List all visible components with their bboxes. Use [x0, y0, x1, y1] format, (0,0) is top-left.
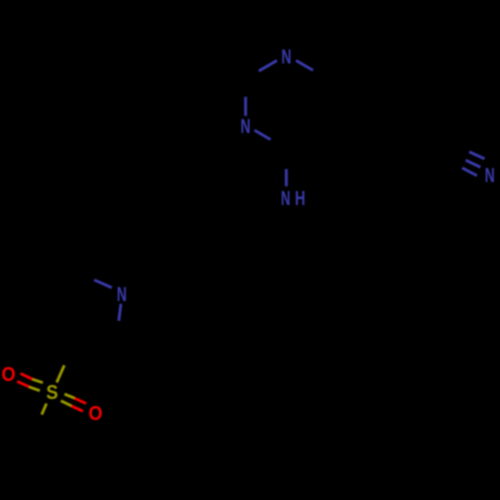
- nitrile triple bond line middle: [466, 160, 481, 167]
- bond N1-C8a (half near N1): [296, 61, 313, 71]
- bond N3-C4 (half near N3): [255, 130, 271, 139]
- svg-text:S: S: [46, 381, 58, 404]
- svg-text:N: N: [117, 283, 127, 306]
- S=O left double bond lower line olive half: [29, 387, 40, 391]
- bond pipN-C6 (half near N): [94, 280, 112, 288]
- S=O left double bond upper line olive half: [33, 379, 43, 382]
- S=O right double bond lower line red half: [71, 406, 83, 411]
- svg-text:N: N: [485, 164, 495, 187]
- nitrile triple bond line bottom: [462, 168, 477, 176]
- bond N1-C2 (half near N1): [259, 61, 277, 72]
- bond S-CH3 (half near S): [42, 404, 47, 415]
- S=O right double bond upper line olive half: [65, 394, 75, 398]
- S=O left double bond upper line red half: [21, 374, 33, 380]
- svg-text:N: N: [241, 115, 251, 138]
- svg-text:N: N: [281, 187, 291, 210]
- S=O right double bond upper line red half: [74, 398, 86, 403]
- bond C4-NH (half near NH): [285, 169, 288, 186]
- nitrile triple bond line top: [469, 152, 484, 159]
- bond pipN-C2 (half near N): [119, 304, 121, 321]
- svg-text:O: O: [2, 363, 16, 386]
- svg-text:O: O: [89, 402, 103, 425]
- bond S-C3 (half near S): [57, 365, 65, 382]
- svg-text:N: N: [281, 45, 291, 68]
- svg-text:H: H: [295, 187, 306, 210]
- S=O right double bond lower line olive half: [61, 401, 71, 406]
- S=O left double bond lower line red half: [17, 381, 29, 387]
- bond C2-N3 vertical (half near N3): [244, 97, 247, 116]
